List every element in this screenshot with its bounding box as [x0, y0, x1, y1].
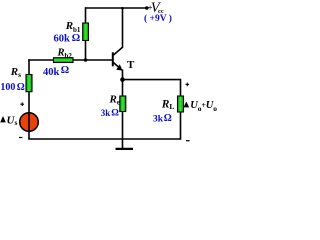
output plus sign	[186, 83, 190, 87]
label delta-Uo plus Uo	[183, 100, 217, 113]
svg-text:Ω: Ω	[164, 113, 172, 124]
wire top rail	[86, 7, 148, 9]
node collector tee	[121, 7, 124, 10]
resistor Rs	[26, 75, 32, 92]
label delta-Us	[0, 114, 17, 126]
wire output horizontal	[123, 79, 181, 81]
wire RL branch vertical	[180, 79, 182, 140]
svg-text:100: 100	[0, 82, 15, 93]
ground	[116, 139, 134, 149]
wire collector vertical	[122, 7, 124, 47]
svg-text:60k: 60k	[54, 33, 71, 44]
wire Rb1 branch vertical	[85, 7, 87, 60]
terminal +Vcc dot	[145, 6, 149, 10]
label +Vcc	[148, 0, 164, 16]
wire emitter vertical	[122, 70, 124, 140]
svg-text:( +9V ): ( +9V )	[144, 13, 172, 24]
svg-text:Ω: Ω	[61, 65, 69, 76]
svg-text:T: T	[127, 59, 135, 71]
svg-text:Ω: Ω	[111, 109, 119, 119]
resistor Rb1	[83, 23, 89, 41]
node base junction dot	[84, 58, 88, 62]
wire bottom rail	[28, 138, 180, 140]
transistor T	[113, 47, 123, 71]
source plus sign	[20, 102, 24, 106]
resistor Re	[120, 96, 126, 112]
svg-text:Ω: Ω	[17, 82, 25, 93]
svg-text:3k: 3k	[153, 114, 164, 124]
node E junction dot	[120, 77, 125, 82]
output minus sign	[186, 140, 190, 142]
svg-text:40k: 40k	[43, 67, 60, 78]
wire base horizontal	[28, 59, 112, 61]
source minus sign	[19, 137, 22, 139]
wire input branch vertical	[28, 59, 30, 139]
svg-text:Ω: Ω	[72, 33, 80, 44]
svg-text:3k: 3k	[101, 108, 111, 118]
resistor Rb2	[54, 58, 74, 63]
source delta-Us	[20, 113, 39, 132]
resistor RL	[178, 96, 184, 112]
